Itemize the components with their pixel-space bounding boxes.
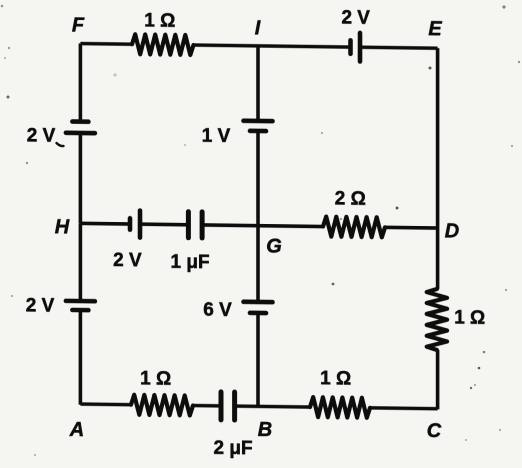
svg-text:H: H [55, 216, 70, 238]
svg-text:2 V: 2 V [341, 7, 370, 28]
svg-text:2 Ω: 2 Ω [335, 188, 366, 209]
svg-text:1 μF: 1 μF [170, 252, 209, 274]
svg-text:2 V: 2 V [113, 250, 142, 271]
svg-text:1 Ω: 1 Ω [454, 307, 485, 328]
svg-text:D: D [445, 220, 459, 242]
svg-text:F: F [72, 14, 85, 36]
svg-text:2 μF: 2 μF [213, 438, 252, 460]
svg-text:1 Ω: 1 Ω [320, 368, 351, 389]
svg-text:A: A [69, 419, 84, 441]
svg-text:B: B [258, 419, 272, 441]
svg-text:1 Ω: 1 Ω [140, 368, 171, 389]
svg-text:I: I [255, 17, 261, 39]
svg-text:C: C [427, 420, 442, 442]
svg-text:6 V: 6 V [203, 300, 232, 321]
svg-text:2 V: 2 V [26, 295, 55, 316]
svg-text:1 V: 1 V [202, 126, 231, 147]
svg-text:G: G [266, 235, 282, 257]
svg-text:E: E [428, 18, 442, 40]
svg-text:1 Ω: 1 Ω [144, 10, 175, 31]
svg-text:2 V: 2 V [27, 125, 56, 146]
